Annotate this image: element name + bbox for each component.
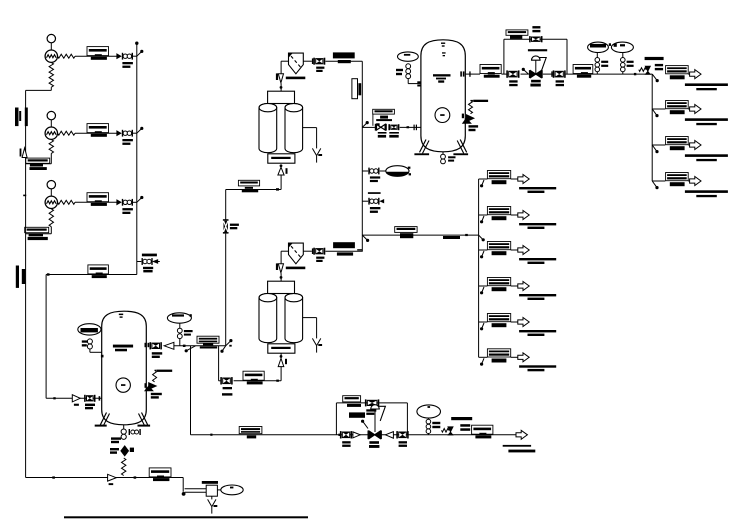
valve, vent stub: [368, 198, 379, 205]
outlet arrow, consumer M5: [518, 318, 529, 327]
label: bottom outlet tag: [472, 425, 493, 438]
pipe: regen drop to header: [225, 234, 227, 346]
reducer, V-2 outlet: [164, 342, 174, 349]
pipe: suction main header (vertical): [25, 90, 27, 477]
node tick: [634, 73, 636, 75]
pipe: dryer B purge: [303, 318, 317, 339]
air receiver V-1 (dry tank): [421, 40, 465, 152]
label: main line tag (rotated): [352, 79, 361, 99]
lever, V-2 relief: [157, 370, 172, 372]
label: K1 discharge tag: [87, 47, 109, 60]
actuator, PCV: [532, 56, 547, 74]
wire: [280, 353, 283, 358]
relief valve, bottom line: [442, 427, 454, 435]
label: relief tag: [151, 393, 162, 399]
label: consumer M1 tag: [487, 171, 510, 185]
node: [182, 492, 186, 496]
node tick: [465, 234, 468, 236]
adsorber tower B2: [285, 293, 303, 342]
drain fittings, V-2: [121, 429, 126, 439]
pipe: K3 suction: [26, 227, 52, 234]
pipe: pot riser: [179, 323, 181, 346]
pipe: pot 1 stem: [596, 53, 598, 75]
air receiver V-2 (wet tank): [102, 311, 147, 425]
wire: [688, 108, 689, 110]
label: funnel tag A: [286, 77, 306, 80]
label: station outlet tag: [573, 65, 593, 78]
wire: [357, 249, 362, 250]
adsorber tower B1: [259, 293, 277, 342]
junction node: [652, 181, 658, 189]
label: relief tag (right): [655, 64, 663, 70]
flange tick: [469, 71, 470, 76]
label: bottom bypass tag: [343, 396, 361, 407]
outlet arrow, consumer M2: [518, 211, 529, 220]
stub node, PCV: [522, 68, 529, 74]
outlet arrow, bottom line: [516, 430, 527, 439]
top manifold, dryer B: [268, 281, 295, 293]
pipe: K2 suction: [26, 153, 52, 163]
flow nozzle, lower dryer inlet: [278, 358, 287, 366]
pipe: to receiver V-1 inlet: [362, 126, 375, 128]
pipe: purge drop (vertical): [190, 346, 192, 435]
label: consumer M6 description: [519, 365, 556, 371]
nozzle flange, V-2 relief: [145, 383, 147, 388]
pipe: regen drop upper: [225, 190, 227, 221]
wire: [380, 170, 386, 172]
check valve, K3: [117, 199, 133, 206]
label: drain pot tag: [202, 481, 218, 484]
label: K2 suction tag: [26, 158, 50, 170]
pipe: consumer branch M1: [479, 178, 488, 180]
pipe: bypass loop: [504, 39, 567, 74]
label: consumer R2 description: [685, 118, 728, 125]
label: purge line tag: [239, 427, 262, 439]
label: suction main tag 2 (rotated text): [16, 266, 25, 288]
nozzle ticks: [417, 81, 420, 86]
junction node: [480, 180, 484, 187]
flex, V-2 drain drop: [122, 458, 126, 476]
nozzle node, V-2 left wall: [101, 355, 104, 358]
label: pot stub tag: [370, 176, 380, 182]
label: check valve K1 tag: [122, 62, 132, 68]
label: V-1 gauge tag: [396, 69, 403, 75]
junction node: [480, 323, 484, 330]
wire: [688, 144, 689, 146]
node tick: [23, 195, 26, 197]
nozzle ticks, V-2 top: [119, 314, 123, 318]
compressor K3: [45, 196, 57, 208]
label: check valve K2 tag: [122, 139, 132, 145]
label: consumer M3 tag: [487, 242, 510, 256]
vent valve on header: [137, 258, 160, 265]
valve, V-2 outlet: [150, 342, 162, 349]
label: consumer M5 tag: [487, 314, 510, 328]
wire: [362, 170, 368, 172]
check valve, K1: [117, 53, 133, 60]
pipe: drain pot twin line: [185, 489, 207, 492]
pipe: K2 discharge to check valve: [75, 132, 117, 134]
label: control valve text: [349, 412, 365, 417]
label: reducer tag: [74, 404, 79, 406]
pipe: separator to funnel, dryer A: [281, 61, 288, 73]
junction node: [480, 216, 484, 223]
legs, V-1: [414, 140, 468, 156]
pipe: dryer B outlet: [326, 250, 363, 252]
pipe: gauge to V-1 shell: [408, 79, 421, 84]
drain fittings, V-1: [441, 154, 446, 164]
label: dryer B outlet tag: [333, 242, 355, 255]
label: consumer R4 description: [685, 190, 728, 197]
node tick: [229, 345, 231, 347]
pipe: K3 discharge to check valve: [75, 201, 117, 203]
instrument bubble, compressor K2: [47, 111, 55, 127]
reducer, receiver inlet: [72, 395, 80, 402]
pipe: consumer branch M2: [479, 214, 488, 216]
wire: [511, 178, 518, 180]
label: drain tag 1: [111, 437, 121, 443]
outlet arrow, consumer M1: [518, 175, 529, 184]
wire: [303, 58, 313, 64]
label: funnel tag: [286, 267, 306, 270]
label: pot 2 tag: [627, 61, 634, 67]
label: dryer inlet valve tag: [222, 387, 232, 396]
label: dryer A outlet tag: [333, 52, 355, 63]
junction node: [47, 273, 50, 275]
node tick: [53, 397, 55, 399]
label: consumer M5 description: [519, 330, 556, 336]
instrument bubble, compressor K3: [47, 181, 55, 197]
label: line number text: [443, 236, 460, 239]
block valve 2, station: [553, 70, 566, 77]
junction node: [480, 251, 484, 258]
outlet arrow, consumer R2: [690, 105, 701, 114]
lever, V-1 relief: [473, 100, 488, 102]
vent tick: [380, 200, 384, 203]
Y-drain, pot: [208, 499, 218, 513]
pipe: main to distribution header: [362, 234, 478, 236]
pipe: consumer branch M5: [479, 321, 488, 323]
control valve PCV: [529, 70, 543, 78]
adsorber tower A1: [259, 103, 277, 152]
pipe: consumer branch R2: [652, 108, 665, 110]
pipe: pot 2 stem: [622, 53, 624, 75]
pipe: right distribution header: [651, 74, 653, 181]
label: vent stub tag (above): [368, 192, 381, 194]
pipe: drop to lower dryer inlet: [218, 346, 220, 381]
nozzle ticks, V-1 top 2: [442, 52, 446, 56]
node: [280, 164, 283, 167]
pipe: dryer A regen line: [226, 175, 281, 190]
junction node, K2 to header: [137, 127, 144, 133]
compressor K1: [45, 50, 57, 62]
wire: [133, 132, 137, 134]
flex connector, K2 suction: [49, 140, 53, 154]
pipe: compressor discharge header (vertical): [135, 42, 138, 275]
drain valve glyph, V-2: [129, 429, 141, 435]
reducer 2, bottom station: [385, 432, 393, 439]
border line (title underline): [64, 516, 308, 518]
label: outlet valve tag: [152, 352, 162, 358]
label: bypass valve tag: [532, 26, 540, 32]
label: bypass tag: [506, 30, 528, 39]
pipe: dry air main (vertical): [361, 61, 363, 251]
label: consumer M2 description: [519, 223, 556, 229]
label: consumer R3 description: [685, 154, 728, 161]
Y-vent, dryer A purge: [312, 148, 322, 162]
label: drain tag 2: [110, 448, 119, 454]
wire: [688, 73, 689, 75]
block valve B, bottom station: [396, 431, 408, 438]
pipe: bottom bypass loop: [336, 403, 407, 435]
junction node: [480, 358, 484, 365]
drain pot float chamber: [217, 485, 243, 495]
junction node, K3 to header: [137, 196, 144, 202]
pipe: to lower dryer: [234, 380, 282, 382]
label: block valve A tag: [342, 441, 350, 447]
pipe: receiver inlet (horizontal): [46, 397, 102, 399]
junction node: [652, 74, 659, 82]
wire: [133, 201, 137, 203]
label: block valve 1 tag: [509, 80, 517, 86]
wire: [511, 356, 518, 358]
junction node, header feed: [479, 235, 485, 241]
label: V-2 nameplate: [113, 345, 133, 352]
node tick: [338, 434, 340, 436]
node tick: [52, 476, 55, 478]
label: regen line tag: [238, 180, 259, 192]
pipe: dryer A outlet: [326, 60, 363, 62]
outlet arrow, consumer R4: [690, 177, 701, 186]
label: bottom line tag: [149, 468, 171, 481]
label: inlet tag (above): [376, 119, 392, 121]
label: consumer M6 tag: [487, 349, 510, 363]
pipe: V-2 drain stub: [123, 425, 125, 429]
label: bottom relief tag (above): [451, 417, 472, 420]
pipe: middle distribution header: [478, 179, 480, 357]
bottom manifold, dryer B: [268, 344, 295, 353]
label: pot riser tag: [184, 330, 193, 336]
pipe: separator to funnel, dryer B: [281, 251, 288, 263]
fittings, bottom pot stem: [426, 419, 431, 433]
gauge fittings, V-1: [406, 64, 411, 79]
junction node: [362, 121, 369, 127]
filter funnel, dryer B inlet: [276, 263, 284, 272]
junction node, dryer feed tee: [220, 339, 232, 353]
label: relief tag (above): [645, 57, 664, 60]
damper pot 1: [588, 42, 611, 52]
label: K2 discharge tag: [87, 124, 109, 137]
label: consumer R4 tag: [666, 173, 689, 187]
manway, V-1: [435, 108, 450, 123]
pipe: consumer branch M6: [479, 356, 488, 358]
label: bottom PCV tag: [369, 441, 379, 448]
label: inlet valves tags (below): [378, 132, 399, 138]
label: V-1 relief tag: [469, 125, 479, 131]
condensate pot on main: [386, 166, 411, 177]
outlet arrow, consumer M3: [518, 246, 529, 255]
label: consumer M3 description: [519, 258, 556, 264]
label: gauge tag: [82, 340, 88, 346]
label: V-1 inlet line tag: [373, 109, 395, 126]
instrument bubble, compressor K1: [47, 34, 55, 50]
label: block valve B tag: [399, 441, 407, 447]
flow reducer, bottom line: [108, 474, 117, 481]
outlet arrow, consumer M6: [518, 353, 529, 362]
wire: [280, 83, 283, 91]
fittings, pot 1 stem: [595, 58, 600, 72]
flow nozzle, dryer A bottom: [278, 167, 288, 175]
reducer, bottom station: [353, 432, 360, 438]
flex connector, K2 discharge: [58, 131, 76, 135]
relief valve, outlet line: [639, 66, 651, 74]
moisture separator, dryer A: [289, 53, 304, 74]
label: consumer R3 tag: [666, 137, 689, 151]
valve, separator outlet B: [313, 248, 325, 255]
label: regen valve tag: [230, 224, 239, 230]
pipe: gauge to V-2 shell: [90, 349, 102, 352]
damper pot, bottom line: [417, 405, 441, 418]
label: distribution feed tag: [395, 227, 417, 239]
block valve 1, station: [506, 70, 519, 77]
valve, separator outlet A: [313, 58, 325, 65]
control valve, bottom PCV: [368, 431, 382, 440]
valve, pot stub: [368, 168, 379, 175]
nozzle flange, V-1 outlet: [460, 71, 464, 76]
gauge fittings, V-2 left: [87, 339, 92, 349]
label: separator valve tag B: [316, 257, 324, 262]
junction node: [652, 109, 658, 117]
outlet arrow, consumer R3: [690, 141, 701, 150]
bottom manifold, dryer A: [268, 154, 295, 163]
drain pot body: [206, 485, 217, 496]
label: pot 1 tag: [601, 61, 608, 67]
outlet arrow, consumer M4: [518, 282, 529, 291]
junction node with stub: [185, 346, 196, 353]
flange pair: [414, 125, 418, 131]
wire: [211, 496, 213, 499]
relief valve, V-2: [145, 383, 157, 391]
flex connector, K3 discharge: [58, 200, 76, 204]
valve, receiver inlet: [84, 395, 95, 402]
valve, lower dryer inlet: [219, 377, 233, 384]
nozzle flange, V-2 outlet: [145, 343, 150, 347]
check valve, K2: [117, 130, 133, 137]
spring, V-1 relief: [469, 100, 474, 113]
filter funnel, dryer A inlet: [276, 73, 284, 82]
outlet arrow, consumer R1: [690, 70, 701, 79]
label: PCV tag: [530, 80, 540, 87]
adsorber tower A2: [285, 103, 303, 152]
pipe: drop to receiver inlet (vertical): [45, 275, 47, 399]
label: bottom outlet description: [503, 445, 536, 453]
nozzle flange: [462, 114, 464, 119]
label: block valve 2 tag: [556, 80, 564, 86]
label: consumer M2 tag: [487, 207, 510, 221]
node tick: [276, 188, 279, 190]
wire: [511, 249, 518, 251]
valve, V-1 inlet: [388, 124, 399, 130]
node tick: [210, 434, 212, 436]
valve, bottom bypass: [365, 399, 379, 406]
compressor K2: [45, 127, 57, 139]
label: bottom relief tag (right): [460, 424, 470, 431]
label: consumer R2 tag: [666, 101, 689, 115]
wire: [511, 214, 518, 216]
pipe: V-1 outlet: [465, 73, 480, 75]
trap pot on outlet line: [167, 313, 191, 323]
label: dryer feed tag: [197, 336, 219, 348]
junction node: [652, 145, 658, 153]
nozzle ticks, V-1 top: [441, 43, 445, 47]
wire: [400, 126, 421, 128]
wire: [442, 152, 444, 154]
label: control valve line (above): [528, 49, 547, 51]
pipe: consumer branch R3: [652, 144, 665, 146]
junction node: [480, 287, 484, 294]
label: vent stub tag (below): [370, 207, 381, 213]
stub node, bottom PCV: [361, 420, 368, 429]
label: suction main tag (rotated text): [15, 108, 28, 127]
label: check valve K3 tag: [122, 208, 132, 214]
label: lower dryer inlet tag: [243, 371, 264, 384]
label: bypass valve tag: [366, 409, 376, 415]
label: reducer tag: [109, 483, 114, 485]
label: vent tag (above): [142, 254, 157, 257]
top manifold, dryer A: [268, 91, 295, 103]
wire: [688, 180, 689, 182]
wire: [133, 55, 137, 57]
flex connector, K1 discharge: [58, 54, 76, 58]
pipe: consumer branch M4: [479, 285, 488, 287]
level pot, V-1: [398, 52, 419, 61]
label: vent tag (below): [143, 267, 153, 273]
flex connector, K3 suction: [49, 209, 53, 227]
label: consumer M1 description: [519, 187, 556, 193]
valve, regen line (vertical): [223, 219, 229, 233]
label: V-1 outlet tag: [480, 65, 501, 78]
block valve A, bottom station: [340, 431, 352, 438]
wire: [521, 73, 555, 75]
pipe: consumer branch M3: [479, 249, 488, 251]
label: consumer M4 description: [519, 294, 556, 300]
valve, bypass: [529, 36, 542, 42]
flex connector, K1 suction: [49, 63, 53, 88]
label: inlet valve tag: [85, 404, 95, 410]
flange tick: [99, 396, 101, 400]
pipe: bottom suction line: [26, 477, 184, 479]
junction node: [183, 345, 186, 347]
relief valve, V-1: [463, 115, 475, 124]
pipe: header to receiver (horizontal): [46, 274, 137, 276]
wire: [303, 248, 313, 254]
Y-vent, dryer B purge: [312, 338, 322, 352]
wire: [511, 285, 518, 287]
manway, V-2: [116, 378, 130, 392]
junction node: [362, 235, 369, 242]
pipe: K1 discharge to check valve: [75, 55, 117, 57]
junction node, K1 to header: [137, 50, 144, 56]
check valve, V-1 inlet: [375, 123, 387, 130]
level pot, V-2: [78, 324, 101, 335]
fittings, pot 2 stem: [621, 58, 626, 72]
pipe: consumer branch R4: [652, 180, 665, 182]
pipe: drop to drain pot: [182, 478, 184, 492]
drain trap, V-2: [121, 446, 134, 456]
wire: [280, 273, 283, 281]
label: V-1 drain tag: [448, 156, 455, 161]
pipe: V-2 outlet to dryer feed (horizontal): [174, 345, 226, 347]
